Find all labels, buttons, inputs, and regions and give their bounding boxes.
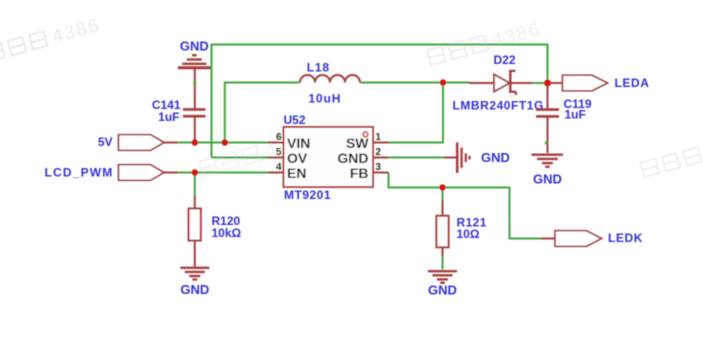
- svg-text:SW: SW: [346, 135, 369, 151]
- svg-text:1uF: 1uF: [158, 110, 179, 124]
- svg-text:GND: GND: [337, 150, 368, 166]
- junction SW-L18: [440, 79, 446, 85]
- svg-text:1uF: 1uF: [565, 108, 586, 122]
- junction 5V-C141: [192, 139, 198, 145]
- svg-text:5V: 5V: [98, 135, 113, 149]
- svg-text:4: 4: [276, 162, 282, 173]
- wire SW net: [389, 83, 444, 143]
- watermark middle: [199, 130, 316, 180]
- resistor R121: [436, 200, 448, 256]
- wire L18 to diode: [360, 82, 470, 84]
- ground under R121: [428, 271, 457, 283]
- port LEDA: [548, 75, 608, 91]
- wire L18 riser: [224, 83, 226, 144]
- junction EN-R120: [192, 169, 198, 175]
- svg-text:D22: D22: [493, 53, 515, 67]
- watermark top-left: [0, 15, 103, 65]
- ground at GND pin (right-pointing): [444, 142, 470, 173]
- svg-text:EN: EN: [287, 165, 306, 181]
- wire OV horizontal: [212, 157, 269, 159]
- pin 4 stub: [268, 172, 284, 174]
- svg-text:10uH: 10uH: [308, 92, 341, 106]
- junction FB-R121: [439, 184, 445, 190]
- svg-text:2: 2: [375, 147, 381, 158]
- svg-text:OV: OV: [287, 150, 308, 166]
- resistor R120: [189, 196, 201, 267]
- wire OV top net: [212, 45, 548, 158]
- pin 5 stub: [268, 157, 284, 159]
- wire R121 drop: [442, 188, 444, 202]
- ground under C119: [532, 155, 564, 167]
- svg-text:10kΩ: 10kΩ: [212, 226, 242, 240]
- pin 3 stub: [373, 172, 389, 174]
- svg-text:6: 6: [276, 132, 282, 143]
- svg-text:GND: GND: [428, 283, 457, 298]
- svg-text:GND: GND: [533, 172, 562, 187]
- ground under R120: [180, 268, 209, 280]
- svg-text:U52: U52: [284, 113, 306, 127]
- pin 1 stub: [373, 142, 389, 144]
- svg-text:LEDK: LEDK: [608, 231, 643, 245]
- wire 5V to VIN: [178, 142, 268, 144]
- svg-text:VIN: VIN: [287, 135, 310, 151]
- svg-text:GND: GND: [180, 38, 209, 53]
- svg-text:GND: GND: [180, 282, 209, 297]
- svg-text:LEDA: LEDA: [615, 76, 650, 90]
- svg-text:GND: GND: [481, 150, 510, 165]
- wire GND pin: [389, 157, 445, 159]
- junction LEDA node: [544, 80, 551, 87]
- wire FB net: [389, 173, 542, 239]
- wire end tick on C119 lead: [545, 141, 548, 144]
- svg-text:LMBR240FT1G: LMBR240FT1G: [453, 98, 544, 112]
- watermark top-center: [427, 19, 544, 69]
- wire end tick on C141 lead: [193, 82, 196, 85]
- svg-text:LCD_PWM: LCD_PWM: [44, 165, 113, 179]
- port LEDK: [541, 231, 602, 247]
- pin 1 dot marker: [363, 132, 368, 137]
- pin 6 stub: [268, 142, 284, 144]
- junction 5V-L18: [222, 139, 228, 145]
- svg-text:5: 5: [276, 147, 282, 158]
- wire L18 left: [224, 82, 300, 84]
- port 5V: [119, 135, 179, 151]
- wire LCD_PWM to EN: [178, 172, 268, 174]
- svg-text:3: 3: [375, 162, 381, 173]
- svg-text:MT9201: MT9201: [284, 188, 331, 202]
- inductor L18: [300, 75, 360, 82]
- svg-text:FB: FB: [350, 165, 369, 181]
- wire R120 drop: [194, 173, 196, 198]
- port LCD_PWM: [119, 165, 179, 181]
- diode D22: [469, 70, 533, 95]
- watermark right: [641, 147, 702, 177]
- body U52: [284, 127, 374, 187]
- wire diode to LEDA node: [532, 82, 548, 84]
- op IC U52 MT9201: [268, 127, 389, 187]
- capacitor C119: [536, 85, 559, 153]
- svg-text:L18: L18: [307, 60, 330, 74]
- svg-text:1: 1: [375, 132, 381, 143]
- pin 2 stub: [373, 157, 389, 159]
- capacitor C141: [183, 69, 206, 143]
- svg-text:10Ω: 10Ω: [457, 227, 480, 241]
- ground top (flipped): [178, 55, 211, 68]
- wire R121 to ground: [442, 255, 444, 270]
